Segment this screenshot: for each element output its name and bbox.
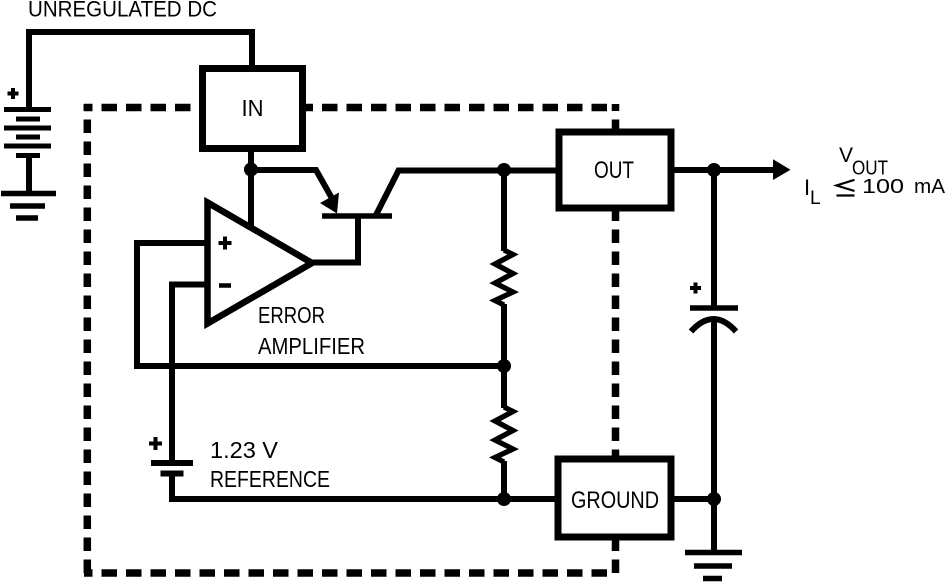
op-amp U1 triangle <box>208 203 313 324</box>
wire: divider middle <box>501 304 507 408</box>
wire: IN box bottom lead to node <box>248 150 254 172</box>
node: ground junction right <box>707 492 721 506</box>
battery B1 plates <box>4 110 51 156</box>
capacitor C1 plus sign <box>690 283 701 294</box>
wire: battery to ground <box>26 155 32 193</box>
battery B1 plus sign <box>8 88 19 99</box>
svg-text:mA: mA <box>914 176 945 198</box>
wire: GROUND box to output ground node <box>670 496 714 502</box>
svg-text:IN: IN <box>242 95 264 121</box>
wire: emitter of Q1 from node <box>251 170 334 201</box>
wire: op-amp supply from node <box>248 169 254 229</box>
wire: OUT box to output arrow <box>670 167 776 173</box>
reference battery plus sign <box>149 437 162 450</box>
capacitor C1 top plate <box>690 305 738 311</box>
wire: reference battery to ground rail <box>172 474 560 499</box>
reference battery plates <box>151 463 193 474</box>
node: output junction <box>707 163 721 177</box>
resistor R2 <box>495 407 513 462</box>
dashed IC boundary top <box>84 104 616 112</box>
svg-text:OUT: OUT <box>594 157 634 184</box>
svg-text:UNREGULATED DC: UNREGULATED DC <box>28 0 217 22</box>
node: collector/OUT junction <box>497 163 511 177</box>
wire: capacitor to ground <box>711 320 717 552</box>
transistor Q1 base bar <box>322 213 392 219</box>
wire: op-amp + input to feedback node <box>137 243 506 366</box>
wire: divider top lead <box>501 168 507 251</box>
capacitor C1 curved plate <box>691 319 736 332</box>
emitter arrowhead Q1 <box>320 193 339 214</box>
wire: op-amp - input to reference <box>172 285 208 462</box>
node: divider ground junction <box>497 492 511 506</box>
svg-text:REFERENCE: REFERENCE <box>210 466 330 492</box>
op-amp minus input label <box>219 283 231 288</box>
wire: collector of Q1 to OUT box <box>376 171 560 216</box>
wire: divider bottom lead <box>501 461 507 499</box>
output arrowhead <box>773 159 791 180</box>
wire: Q1 base to op-amp output <box>309 217 358 263</box>
ground symbol right <box>685 553 742 579</box>
IN box <box>203 69 303 149</box>
svg-text:GROUND: GROUND <box>571 487 659 514</box>
svg-text:1.23 V: 1.23 V <box>210 437 279 463</box>
dashed IC boundary bottom <box>84 569 616 577</box>
svg-text:AMPLIFIER: AMPLIFIER <box>258 333 365 359</box>
wire: output node to capacitor <box>711 167 717 306</box>
dashed IC boundary right <box>612 104 620 576</box>
node: feedback junction <box>497 359 511 373</box>
op-amp plus input label <box>219 237 232 250</box>
node: IN pin junction <box>244 163 258 177</box>
dashed IC boundary left <box>84 104 92 576</box>
svg-text:L: L <box>810 188 821 209</box>
svg-text:ERROR: ERROR <box>258 302 325 328</box>
ground symbol left <box>1 194 56 219</box>
svg-text:100: 100 <box>862 176 904 198</box>
GROUND box <box>558 459 671 537</box>
wire: battery to IN box top <box>29 32 252 112</box>
OUT box <box>559 132 671 208</box>
resistor R1 <box>495 250 513 305</box>
svg-text:V: V <box>839 144 853 167</box>
